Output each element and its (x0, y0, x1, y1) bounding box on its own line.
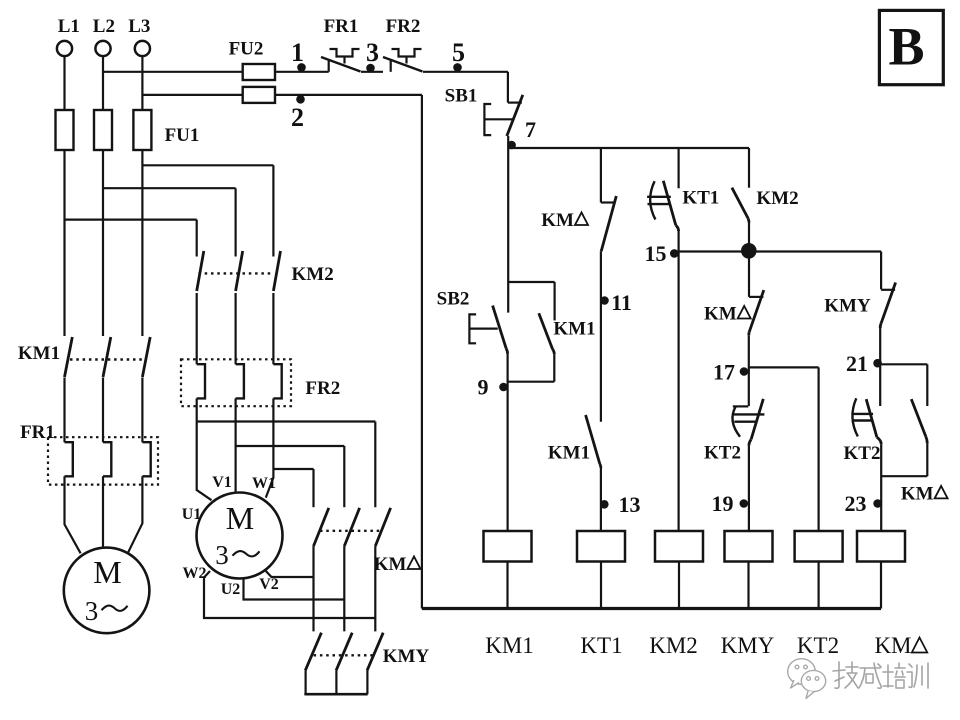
svg-text:3: 3 (215, 540, 229, 570)
svg-text:V2: V2 (259, 576, 279, 593)
svg-text:5: 5 (452, 38, 465, 67)
svg-text:M: M (93, 554, 121, 590)
svg-text:KT2: KT2 (797, 633, 839, 658)
svg-text:2: 2 (291, 103, 304, 132)
svg-text:W1: W1 (252, 475, 276, 492)
svg-text:FR1: FR1 (324, 16, 359, 37)
svg-text:L3: L3 (128, 16, 150, 37)
svg-text:SB2: SB2 (437, 289, 470, 310)
svg-text:U1: U1 (182, 506, 202, 523)
svg-text:KT1: KT1 (580, 633, 622, 658)
svg-text:KM: KM (374, 554, 407, 575)
svg-text:KM: KM (541, 210, 574, 231)
svg-text:KM1: KM1 (485, 633, 534, 658)
svg-text:KT2: KT2 (704, 443, 741, 464)
svg-text:L2: L2 (93, 16, 115, 37)
svg-text:1: 1 (291, 38, 304, 67)
svg-text:11: 11 (611, 290, 632, 315)
svg-text:KMY: KMY (383, 646, 430, 667)
svg-text:KM1: KM1 (553, 319, 595, 340)
svg-text:U2: U2 (221, 581, 241, 598)
svg-text:3: 3 (366, 38, 379, 67)
svg-text:B: B (888, 17, 924, 77)
svg-text:13: 13 (619, 492, 641, 517)
svg-text:19: 19 (712, 491, 734, 516)
svg-text:KM: KM (874, 633, 911, 658)
svg-text:M: M (226, 500, 254, 536)
svg-text:3: 3 (85, 596, 99, 626)
svg-text:7: 7 (525, 117, 536, 142)
svg-text:KM: KM (704, 304, 737, 325)
svg-text:17: 17 (713, 360, 735, 385)
svg-text:23: 23 (845, 491, 867, 516)
svg-text:V1: V1 (212, 474, 232, 491)
svg-text:KM2: KM2 (649, 633, 698, 658)
svg-text:FR2: FR2 (386, 16, 421, 37)
svg-text:SB1: SB1 (445, 86, 478, 107)
svg-text:9: 9 (478, 375, 489, 400)
svg-text:L1: L1 (58, 16, 80, 37)
svg-text:KT1: KT1 (682, 188, 719, 209)
svg-text:KM1: KM1 (548, 443, 590, 464)
svg-text:KM2: KM2 (756, 188, 798, 209)
svg-text:KT2: KT2 (844, 443, 881, 464)
svg-text:KM: KM (901, 483, 934, 504)
svg-text:FR2: FR2 (305, 378, 340, 399)
svg-text:15: 15 (645, 241, 667, 266)
svg-text:FR1: FR1 (20, 422, 55, 443)
svg-text:FU1: FU1 (165, 125, 200, 146)
svg-text:FU2: FU2 (229, 39, 264, 60)
svg-text:KM2: KM2 (291, 264, 333, 285)
svg-text:21: 21 (846, 351, 868, 376)
svg-text:KM1: KM1 (18, 343, 60, 364)
svg-text:KMY: KMY (824, 296, 871, 317)
svg-text:KMY: KMY (721, 633, 775, 658)
